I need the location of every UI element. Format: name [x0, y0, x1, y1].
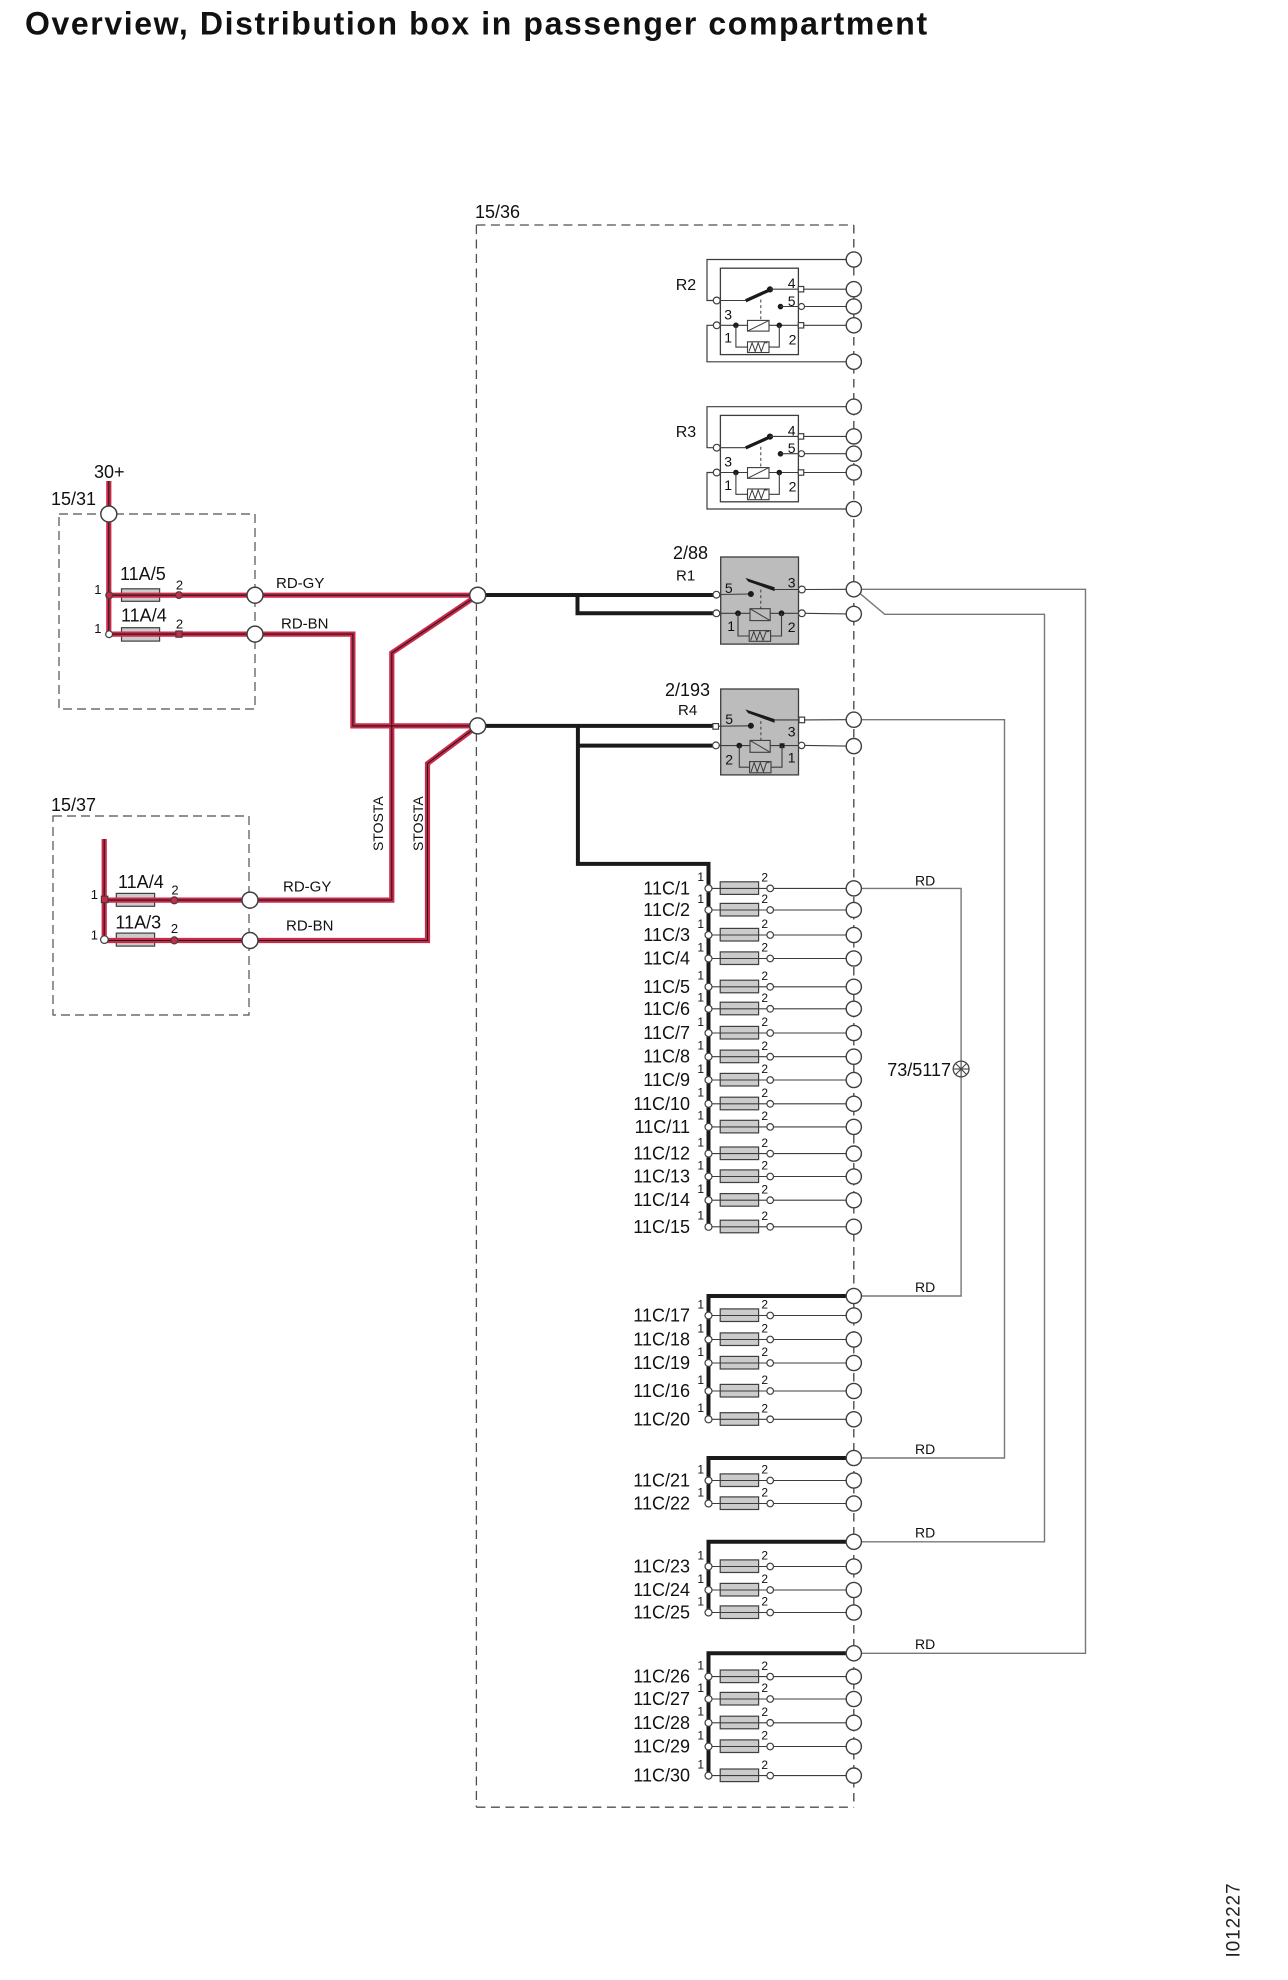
R3 resistor	[736, 473, 748, 495]
svg-text:11C/14: 11C/14	[633, 1190, 690, 1210]
svg-text:1: 1	[697, 1158, 704, 1172]
fuse 11C/6	[643, 991, 861, 1019]
node 11C/19 output	[846, 1355, 861, 1370]
fuse 11C/11	[635, 1109, 862, 1137]
svg-text:11C/3: 11C/3	[643, 925, 690, 945]
fuse 11C/10	[633, 1086, 861, 1114]
svg-text:2: 2	[761, 1015, 768, 1029]
svg-text:2/88: 2/88	[673, 543, 708, 563]
svg-text:11C/7: 11C/7	[643, 1023, 690, 1043]
node 11C/11 output	[846, 1119, 861, 1134]
R2 coil	[720, 324, 747, 326]
R3 pin 4	[770, 435, 798, 437]
fuse 11A/5 body	[122, 589, 160, 602]
svg-text:30+: 30+	[94, 462, 125, 482]
svg-text:11C/20: 11C/20	[633, 1409, 690, 1429]
svg-text:1: 1	[91, 928, 98, 943]
svg-text:2: 2	[789, 332, 797, 348]
svg-text:2: 2	[761, 1549, 768, 1563]
node 11C/17 output	[846, 1308, 861, 1323]
R4 pin 1	[798, 742, 804, 748]
svg-text:2: 2	[761, 1595, 768, 1609]
node 11C/5 output	[846, 979, 861, 994]
R2 pin 1	[713, 322, 720, 329]
svg-text:11C/25: 11C/25	[633, 1603, 690, 1623]
svg-text:1: 1	[697, 1401, 704, 1415]
svg-text:4: 4	[788, 275, 796, 291]
R1 pin 3	[774, 589, 798, 591]
svg-text:1: 1	[697, 1297, 704, 1311]
fuse 11C/26	[633, 1658, 861, 1686]
svg-text:RD: RD	[915, 1636, 935, 1652]
svg-text:11C/22: 11C/22	[633, 1494, 690, 1514]
svg-text:4: 4	[788, 422, 796, 438]
R4 coil	[750, 740, 770, 752]
svg-text:1: 1	[94, 582, 101, 597]
fuse 11C/19	[633, 1345, 861, 1373]
svg-text:RD: RD	[915, 1525, 935, 1541]
svg-text:2: 2	[761, 871, 768, 885]
wire feed to fuse group 11C/23-25	[709, 1542, 847, 1613]
fuse 11C/1	[643, 870, 861, 898]
svg-text:RD: RD	[915, 1279, 935, 1295]
R4 switch	[745, 709, 774, 722]
R1 pin 5	[720, 593, 751, 596]
svg-text:1: 1	[697, 1182, 704, 1196]
wire RD from 11C/1 to group 11C/17-20	[861, 888, 961, 1296]
svg-text:2: 2	[761, 969, 768, 983]
svg-text:11C/11: 11C/11	[635, 1117, 690, 1137]
svg-text:2: 2	[761, 1729, 768, 1743]
R3 pin 3	[720, 447, 746, 449]
svg-text:2: 2	[761, 917, 768, 931]
svg-text:11C/19: 11C/19	[633, 1353, 690, 1373]
svg-text:1: 1	[697, 1321, 704, 1335]
node 11C/14 output	[846, 1193, 861, 1208]
svg-text:11C/12: 11C/12	[633, 1144, 690, 1164]
svg-text:2: 2	[176, 577, 183, 592]
svg-text:1: 1	[94, 621, 101, 636]
node 11C/10 output	[846, 1096, 861, 1111]
svg-text:1: 1	[697, 1757, 704, 1771]
svg-text:STOSTA: STOSTA	[370, 796, 386, 851]
svg-text:2: 2	[761, 941, 768, 955]
svg-text:11A/5: 11A/5	[120, 564, 166, 584]
R3 switch	[746, 437, 771, 448]
wire node to relay R4 pin 5	[478, 724, 713, 728]
R3 coil	[720, 472, 747, 474]
svg-text:1: 1	[697, 892, 704, 906]
node 11C/30 output	[846, 1768, 861, 1783]
svg-text:1: 1	[697, 1462, 704, 1476]
svg-text:2: 2	[761, 1136, 768, 1150]
svg-text:2: 2	[725, 751, 733, 767]
svg-text:2: 2	[761, 1681, 768, 1695]
svg-text:3: 3	[724, 454, 732, 470]
fuse 11C/24	[633, 1572, 861, 1600]
wire branch to relay R1 pin 1	[578, 595, 714, 613]
svg-text:2: 2	[761, 1345, 768, 1359]
wire RD-GY from 11A/5 to node center line	[109, 594, 478, 596]
svg-text:1: 1	[697, 1209, 704, 1223]
node 11C/9 output	[846, 1072, 861, 1087]
node group feed	[846, 1646, 861, 1661]
fuse 11C/9	[643, 1062, 861, 1090]
node 11C/6 output	[846, 1001, 861, 1016]
wire STOSTA 1 (RD-GY 15/37) center line	[104, 595, 478, 900]
node 11C/13 output	[846, 1169, 861, 1184]
svg-text:2: 2	[761, 1572, 768, 1586]
svg-text:11C/18: 11C/18	[633, 1330, 690, 1350]
fuse 11C/28	[633, 1705, 861, 1733]
R4 pin 2	[713, 742, 720, 749]
fuse 11C/7	[643, 1015, 861, 1043]
svg-text:1: 1	[697, 1572, 704, 1586]
svg-text:1: 1	[697, 1548, 704, 1562]
node 11C/15 output	[846, 1219, 861, 1234]
svg-text:I012227: I012227	[1224, 1883, 1245, 1958]
wire feed to fuse group 11C/17-20	[709, 1296, 847, 1419]
node 11C/20 output	[846, 1412, 861, 1427]
node 11C/27 output	[846, 1691, 861, 1706]
svg-text:11C/24: 11C/24	[633, 1580, 690, 1600]
svg-text:11C/1: 11C/1	[643, 878, 690, 898]
node 11C/2 output	[846, 902, 861, 917]
wire 30+ feed vertical (15/31)	[106, 481, 111, 634]
relay R2	[676, 252, 862, 370]
svg-text:11C/5: 11C/5	[643, 977, 690, 997]
R2 pin 5	[778, 304, 783, 309]
wire node to relay R1 pin 5	[478, 593, 713, 597]
node 11C/4 output	[846, 951, 861, 966]
node 11A/4 output (15/31)	[247, 626, 263, 642]
node 11C/28 output	[846, 1715, 861, 1730]
svg-text:5: 5	[788, 440, 796, 456]
svg-text:2: 2	[761, 1182, 768, 1196]
svg-text:1: 1	[697, 1062, 704, 1076]
svg-text:15/36: 15/36	[475, 202, 520, 222]
R3 pin 1	[713, 469, 720, 476]
R2 wrapper wires	[707, 260, 846, 301]
svg-text:2: 2	[761, 1039, 768, 1053]
node 11C/24 output	[846, 1582, 861, 1597]
svg-text:11C/17: 11C/17	[633, 1306, 690, 1326]
fuse 11C/21	[633, 1462, 861, 1490]
node 11C/12 output	[846, 1146, 861, 1161]
svg-text:2: 2	[761, 1373, 768, 1387]
R3 pin 2	[798, 470, 803, 475]
svg-text:1: 1	[697, 1015, 704, 1029]
wire RD from R1 pin 3 to group 11C/26-30	[861, 589, 1085, 1653]
svg-text:1: 1	[697, 1485, 704, 1499]
svg-text:11C/9: 11C/9	[643, 1070, 690, 1090]
R3 pin 5	[778, 452, 783, 457]
svg-text:RD-GY: RD-GY	[276, 575, 324, 592]
fuse 11C/5	[643, 969, 861, 997]
fuse 11C/18	[633, 1321, 861, 1349]
node 11C/23 output	[846, 1559, 861, 1574]
svg-text:RD-BN: RD-BN	[281, 616, 329, 633]
svg-text:2: 2	[761, 1159, 768, 1173]
wire RD from R4 pin 3 to group 11C/21-22	[861, 720, 1004, 1458]
svg-text:5: 5	[725, 711, 733, 727]
node 11A/5 output	[247, 587, 263, 603]
R3 body	[720, 415, 798, 501]
svg-text:2: 2	[171, 883, 178, 898]
svg-text:5: 5	[788, 293, 796, 309]
fuse 11C/17	[633, 1297, 861, 1325]
fuse 11A/3 body	[116, 933, 154, 946]
svg-text:RD-GY: RD-GY	[283, 879, 331, 896]
svg-text:2: 2	[761, 1705, 768, 1719]
svg-text:RD: RD	[915, 1441, 935, 1457]
node 11C/22 output	[846, 1496, 861, 1511]
fuse 11C/15	[633, 1209, 861, 1237]
svg-text:1: 1	[697, 1594, 704, 1608]
svg-text:3: 3	[788, 575, 796, 591]
svg-text:2: 2	[789, 479, 797, 495]
node 11C/7 output	[846, 1025, 861, 1040]
node 11C/21 output	[846, 1473, 861, 1488]
svg-text:1: 1	[724, 330, 732, 346]
wire STOSTA 2 (RD-BN 15/37) center line	[104, 726, 478, 941]
fuse 11C/2	[643, 892, 861, 920]
node 11C/25 output	[846, 1605, 861, 1620]
R3 wrapper wires	[707, 407, 846, 448]
wire 30+ feed vertical (15/31) center line	[108, 481, 110, 634]
svg-text:3: 3	[724, 307, 732, 323]
svg-text:RD: RD	[915, 873, 935, 889]
svg-text:2: 2	[171, 921, 178, 936]
node 11C/3 output	[846, 927, 861, 942]
fuse 11C/8	[643, 1039, 861, 1067]
svg-text:3: 3	[788, 724, 796, 740]
wire RD-BN from 11A/4 to node	[109, 634, 478, 726]
svg-text:2: 2	[788, 619, 796, 635]
svg-text:11C/26: 11C/26	[633, 1667, 690, 1687]
svg-text:1: 1	[697, 1109, 704, 1123]
svg-text:1: 1	[697, 870, 704, 884]
node 11A/4 output (15/37)	[242, 892, 258, 908]
fuse 11C/3	[643, 917, 861, 945]
svg-text:1: 1	[697, 1135, 704, 1149]
svg-text:2: 2	[761, 1659, 768, 1673]
svg-text:11C/28: 11C/28	[633, 1713, 690, 1733]
svg-text:1: 1	[697, 1705, 704, 1719]
svg-text:RD-BN: RD-BN	[286, 918, 334, 935]
fuse 11A/4 body (15/37)	[116, 893, 154, 906]
node 11C/26 output	[846, 1669, 861, 1684]
fuse 11C/12	[633, 1135, 861, 1163]
fuse 11C/22	[633, 1485, 861, 1513]
wire RD-BN from 11A/4 to node center line	[109, 634, 478, 726]
svg-text:1: 1	[697, 1681, 704, 1695]
wire STOSTA 2 (RD-BN 15/37)	[104, 726, 478, 941]
relay R1 2/88	[673, 543, 861, 644]
fuse 11C/29	[633, 1728, 861, 1756]
R1 pin 1	[713, 610, 720, 617]
svg-text:5: 5	[725, 580, 733, 596]
fuse 11C/16	[633, 1373, 861, 1401]
relay R4 2/193	[665, 680, 861, 775]
svg-text:11C/10: 11C/10	[633, 1094, 690, 1114]
fuse 11C/14	[633, 1182, 861, 1210]
R2 bus terminals	[846, 252, 861, 267]
fuse 11C/30	[633, 1757, 861, 1785]
wire feed to fuse group 11C/26-30	[709, 1653, 847, 1775]
svg-text:R4: R4	[678, 702, 697, 719]
svg-text:1: 1	[697, 1345, 704, 1359]
node 11C/1 output	[846, 881, 861, 896]
R1 bus terminals	[846, 582, 861, 597]
node group feed	[846, 1288, 861, 1303]
fuse 11C/20	[633, 1401, 861, 1429]
svg-text:1: 1	[697, 1728, 704, 1742]
node RD-GY junction	[470, 587, 486, 603]
svg-text:2: 2	[761, 1322, 768, 1336]
svg-text:11C/6: 11C/6	[643, 999, 690, 1019]
R2 wires to bus	[804, 288, 847, 290]
R3 wires to bus	[804, 435, 847, 437]
R4 pin 5	[719, 725, 751, 727]
svg-text:1: 1	[697, 940, 704, 954]
svg-text:R3: R3	[676, 424, 697, 441]
svg-text:11A/4: 11A/4	[121, 605, 167, 625]
fuse 11C/25	[633, 1594, 861, 1622]
fuse 11C/13	[633, 1158, 861, 1186]
svg-text:1: 1	[697, 1373, 704, 1387]
node group feed	[846, 1450, 861, 1465]
relay R3	[676, 399, 862, 516]
svg-text:11C/13: 11C/13	[633, 1167, 690, 1187]
R1 resistor	[738, 613, 749, 636]
R4 bus terminals	[846, 712, 861, 727]
R1 switch	[745, 578, 774, 591]
svg-text:11C/23: 11C/23	[633, 1557, 690, 1577]
svg-text:11C/30: 11C/30	[633, 1766, 690, 1786]
svg-text:2: 2	[761, 1463, 768, 1477]
node 11C/18 output	[846, 1332, 861, 1347]
R4 body	[721, 689, 799, 775]
svg-text:73/5117: 73/5117	[887, 1060, 951, 1080]
wire 15/37 feed stub center line	[103, 839, 105, 941]
R2 body	[720, 268, 798, 354]
svg-text:1: 1	[697, 917, 704, 931]
bus pin line of 15/36	[853, 225, 855, 1807]
svg-text:1: 1	[788, 749, 796, 765]
svg-text:1: 1	[697, 1039, 704, 1053]
svg-text:2: 2	[761, 1209, 768, 1223]
svg-text:1: 1	[91, 887, 98, 902]
wire RD from R1 pin 3 to group 11C/23-25	[859, 593, 1044, 1542]
R4 wires to bus	[805, 719, 847, 721]
svg-text:1: 1	[697, 1086, 704, 1100]
svg-text:11C/8: 11C/8	[643, 1047, 690, 1067]
R1 coil	[750, 609, 770, 621]
svg-text:15/31: 15/31	[51, 489, 96, 509]
svg-text:11C/2: 11C/2	[643, 900, 690, 920]
R4 pin 3	[774, 719, 799, 721]
R3 bus terminals	[846, 399, 861, 414]
svg-text:2: 2	[761, 892, 768, 906]
svg-text:Overview, Distribution box in: Overview, Distribution box in passenger …	[25, 6, 929, 42]
wire feed to fuse group 11C/1-15	[578, 726, 709, 1227]
svg-text:11C/16: 11C/16	[633, 1381, 690, 1401]
R2 pin 3	[720, 300, 746, 302]
node 15/31 entry	[101, 506, 117, 522]
fuse 11C/23	[633, 1548, 861, 1576]
wire 15/37 feed stub	[102, 839, 107, 941]
svg-text:15/37: 15/37	[51, 795, 96, 815]
R1 wires to bus	[805, 588, 846, 590]
fuse 11C/4	[643, 940, 861, 968]
svg-text:2: 2	[761, 1062, 768, 1076]
svg-text:11C/29: 11C/29	[633, 1737, 690, 1757]
svg-text:1: 1	[727, 618, 735, 634]
svg-text:1: 1	[724, 477, 732, 493]
svg-text:1: 1	[697, 1658, 704, 1672]
svg-text:2: 2	[761, 1758, 768, 1772]
svg-text:11C/15: 11C/15	[633, 1217, 690, 1237]
svg-text:11A/3: 11A/3	[115, 913, 161, 933]
svg-text:R2: R2	[676, 277, 697, 294]
R1 body	[721, 557, 799, 644]
wire STOSTA 1 (RD-GY 15/37)	[104, 595, 478, 900]
svg-text:11C/21: 11C/21	[633, 1471, 690, 1491]
R2 pin 4	[770, 288, 798, 290]
node 11C/8 output	[846, 1049, 861, 1064]
svg-text:2: 2	[761, 991, 768, 1005]
R1 pin 2	[799, 610, 806, 617]
fuse 11A/4 body (15/31)	[122, 628, 160, 641]
svg-text:11A/4: 11A/4	[118, 872, 164, 892]
svg-text:2/193: 2/193	[665, 680, 710, 700]
svg-text:R1: R1	[676, 568, 695, 585]
svg-text:11C/4: 11C/4	[643, 949, 690, 969]
R2 switch	[746, 290, 771, 301]
svg-text:2: 2	[761, 1086, 768, 1100]
svg-text:2: 2	[176, 617, 183, 632]
svg-text:2: 2	[761, 1109, 768, 1123]
svg-text:1: 1	[697, 991, 704, 1005]
svg-text:1: 1	[697, 969, 704, 983]
wire branch to relay R4 pin 2	[578, 744, 713, 748]
node RD-BN junction	[470, 718, 486, 734]
wire feed to fuse group 11C/21-22	[709, 1458, 847, 1504]
svg-text:2: 2	[761, 1298, 768, 1312]
node 11C/29 output	[846, 1739, 861, 1754]
R2 pin 2	[798, 323, 803, 328]
R4 resistor	[739, 746, 749, 768]
svg-text:STOSTA: STOSTA	[410, 796, 426, 851]
svg-text:11C/27: 11C/27	[633, 1689, 690, 1709]
R2 resistor	[736, 325, 748, 347]
wire RD-GY from 11A/5 to node	[109, 593, 478, 598]
node group feed	[846, 1534, 861, 1549]
node 11C/16 output	[846, 1383, 861, 1398]
node 11A/3 output	[242, 933, 258, 949]
svg-text:2: 2	[761, 1486, 768, 1500]
svg-text:2: 2	[761, 1402, 768, 1416]
fuse 11C/27	[633, 1681, 861, 1709]
